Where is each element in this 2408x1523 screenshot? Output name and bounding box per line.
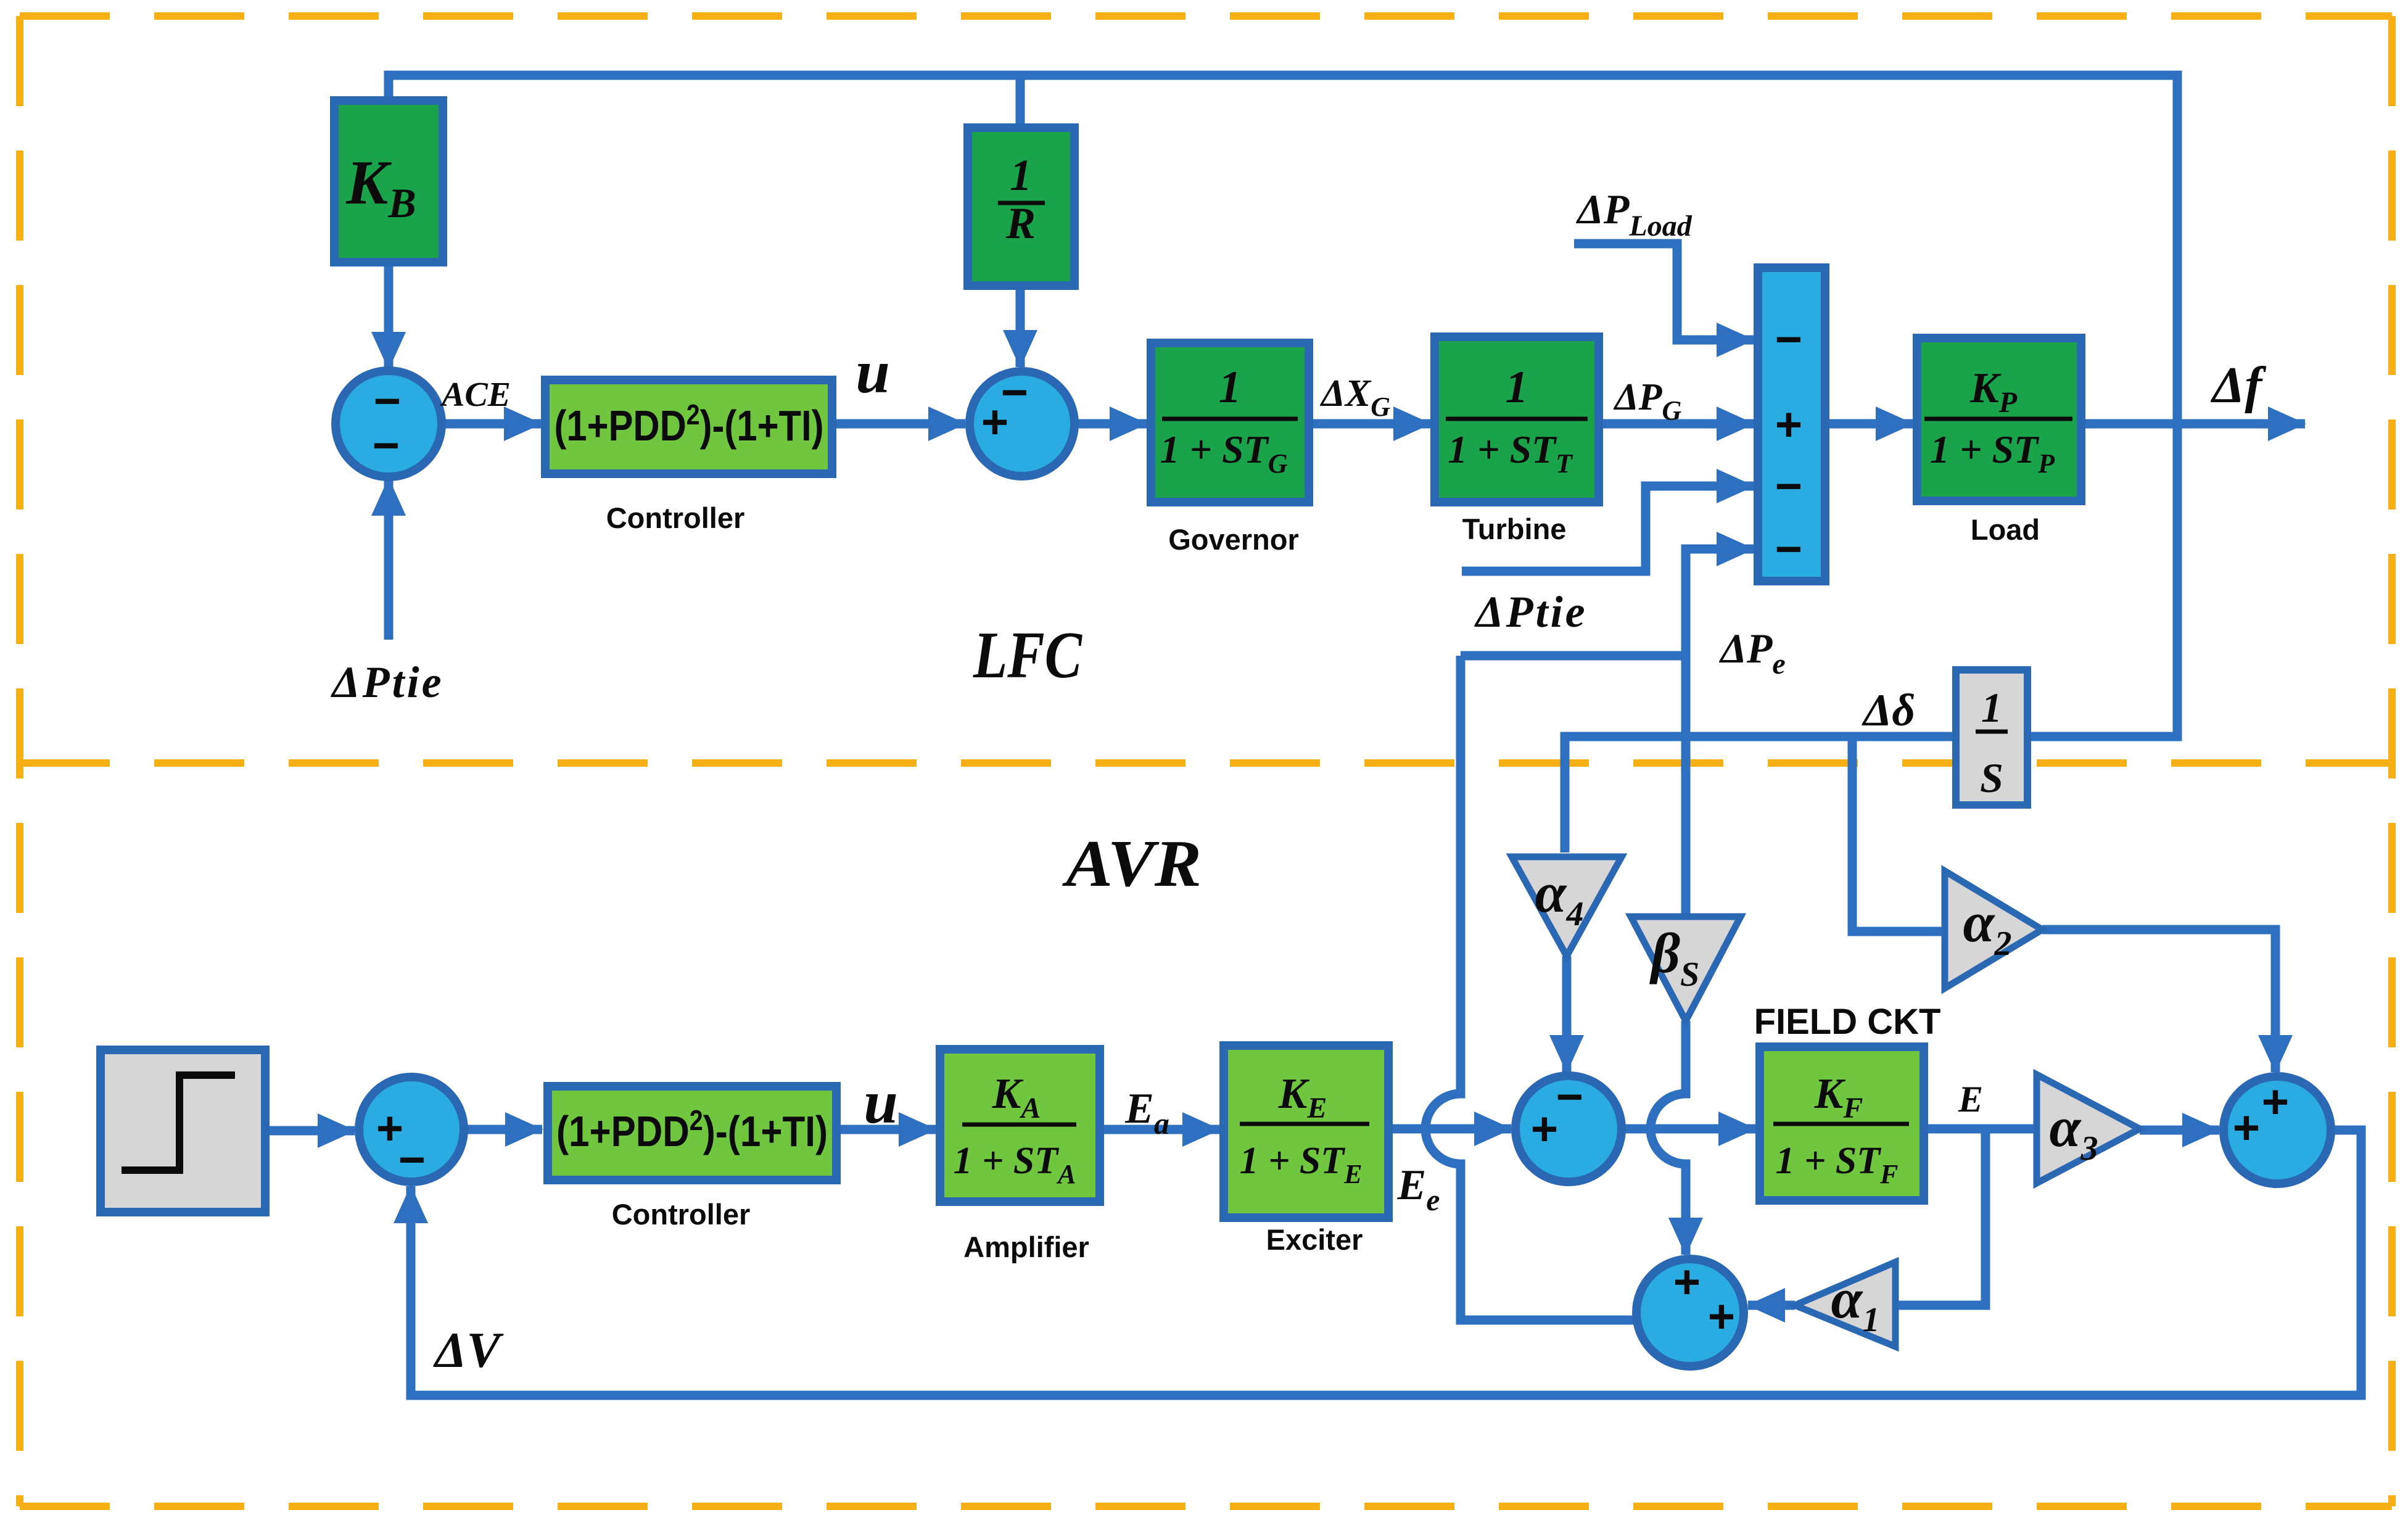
- svg-text:Controller: Controller: [612, 1198, 751, 1231]
- svg-text:ACE: ACE: [440, 376, 511, 414]
- svg-text:−: −: [373, 419, 400, 472]
- svg-text:1 + STP: 1 + STP: [1930, 427, 2055, 479]
- svg-text:−: −: [1775, 523, 1802, 576]
- svg-text:Δδ: Δδ: [1862, 685, 1915, 736]
- svg-text:ΔPe: ΔPe: [1718, 625, 1785, 680]
- svg-text:α2: α2: [1963, 891, 2012, 963]
- svg-text:ΔV: ΔV: [433, 1322, 504, 1378]
- svg-text:+: +: [1775, 398, 1802, 451]
- svg-text:Ea: Ea: [1124, 1085, 1169, 1141]
- svg-text:S: S: [1980, 754, 2003, 801]
- svg-text:AVR: AVR: [1062, 827, 1202, 901]
- svg-text:u: u: [856, 337, 890, 406]
- svg-text:ΔPG: ΔPG: [1613, 376, 1682, 426]
- svg-text:FIELD CKT: FIELD CKT: [1754, 1002, 1941, 1042]
- svg-text:Exciter: Exciter: [1266, 1223, 1363, 1256]
- svg-text:−: −: [398, 1134, 426, 1186]
- svg-text:Governor: Governor: [1168, 523, 1299, 556]
- svg-text:R: R: [1005, 199, 1036, 248]
- svg-text:+: +: [1673, 1256, 1701, 1308]
- svg-text:+: +: [2262, 1076, 2289, 1128]
- svg-text:1: 1: [1981, 684, 2002, 731]
- svg-text:+: +: [1708, 1290, 1735, 1343]
- svg-text:Controller: Controller: [606, 501, 745, 534]
- svg-text:E: E: [1958, 1079, 1983, 1120]
- svg-text:−: −: [1556, 1071, 1583, 1123]
- svg-text:Ee: Ee: [1397, 1162, 1440, 1217]
- svg-text:1: 1: [1010, 151, 1032, 200]
- svg-text:−: −: [1775, 460, 1802, 513]
- svg-text:−: −: [1775, 313, 1802, 366]
- svg-text:1: 1: [1506, 362, 1528, 413]
- svg-text:Amplifier: Amplifier: [963, 1231, 1089, 1263]
- svg-text:LFC: LFC: [973, 619, 1082, 692]
- svg-text:Turbine: Turbine: [1462, 513, 1567, 545]
- svg-text:u: u: [864, 1068, 898, 1136]
- svg-text:ΔXG: ΔXG: [1319, 373, 1390, 422]
- svg-text:+: +: [981, 396, 1008, 448]
- svg-text:ΔPtie: ΔPtie: [1474, 587, 1587, 637]
- svg-text:ΔPtie: ΔPtie: [330, 658, 443, 707]
- svg-text:1 + STT: 1 + STT: [1448, 427, 1573, 479]
- svg-text:+: +: [1531, 1103, 1558, 1155]
- svg-text:Δf: Δf: [2211, 357, 2267, 414]
- svg-text:1: 1: [1219, 362, 1242, 413]
- svg-text:+: +: [2233, 1102, 2260, 1154]
- svg-text:ΔPLoad: ΔPLoad: [1575, 186, 1692, 242]
- svg-text:Load: Load: [1971, 513, 2040, 546]
